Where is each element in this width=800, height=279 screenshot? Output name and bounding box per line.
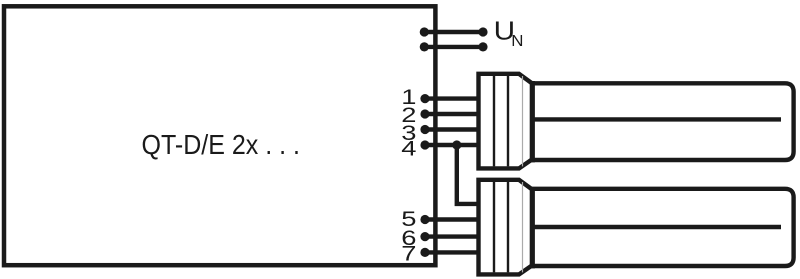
wire pin 3 to lamp 1 (425, 127, 479, 131)
mains wire lower (to UN) (424, 45, 483, 49)
lamp 1 base outline (476, 72, 532, 171)
terminal dot pin 2 (420, 109, 429, 118)
svg-text:QT-D/E 2x . . .: QT-D/E 2x . . . (142, 129, 301, 160)
terminal dot pin 1 (420, 94, 429, 103)
terminal dot mains upper right (478, 27, 487, 36)
mains wire upper (to UN) (424, 30, 483, 34)
lamp 2 tube outline (531, 189, 794, 266)
svg-text:4: 4 (401, 136, 416, 160)
terminal dot mains upper left (420, 27, 429, 36)
terminal dot pin 5 (420, 215, 429, 224)
terminal dot mains lower left (420, 42, 429, 51)
wire pin 5 to lamp 2 (425, 217, 479, 221)
lamp 2 base inner line b (507, 182, 509, 272)
wire from pin 4 junction down to lamp 2 (457, 145, 479, 204)
lamp 1 base faint divider (522, 76, 524, 166)
lamp 1 tube middle line (532, 117, 781, 121)
lamp 1 tube outline (531, 83, 794, 160)
label UN (494, 15, 524, 50)
terminal dot pin 4 (420, 140, 429, 149)
wire pin 4 to lamp 1 (425, 143, 479, 147)
lamp 2 base faint divider (522, 182, 524, 272)
wire pin 6 to lamp 2 (425, 234, 479, 238)
lamp 2 glass end line (530, 187, 535, 268)
lamp 2 base outline (476, 178, 532, 277)
wire pin 7 to lamp 2 (425, 250, 479, 254)
terminal dot mains lower right (478, 42, 487, 51)
wire pin 1 to lamp 1 (425, 96, 479, 100)
wire pin 2 to lamp 1 (425, 112, 479, 116)
terminal dot pin 6 (420, 232, 429, 241)
lamp 1 base inner line b (507, 76, 509, 166)
junction dot on wire 4 (452, 140, 461, 149)
terminal dot pin 7 (420, 248, 429, 257)
lamp 1 base inner line a (493, 76, 495, 166)
ballast box QT-D/E (electronic control gear outline) (4, 6, 435, 265)
lamp 2 base inner line a (493, 182, 495, 272)
terminal dot pin 3 (420, 125, 429, 134)
lamp 1 glass end line (530, 81, 535, 162)
svg-text:N: N (511, 33, 523, 50)
svg-text:7: 7 (401, 242, 416, 266)
lamp 2 tube middle line (532, 225, 781, 229)
